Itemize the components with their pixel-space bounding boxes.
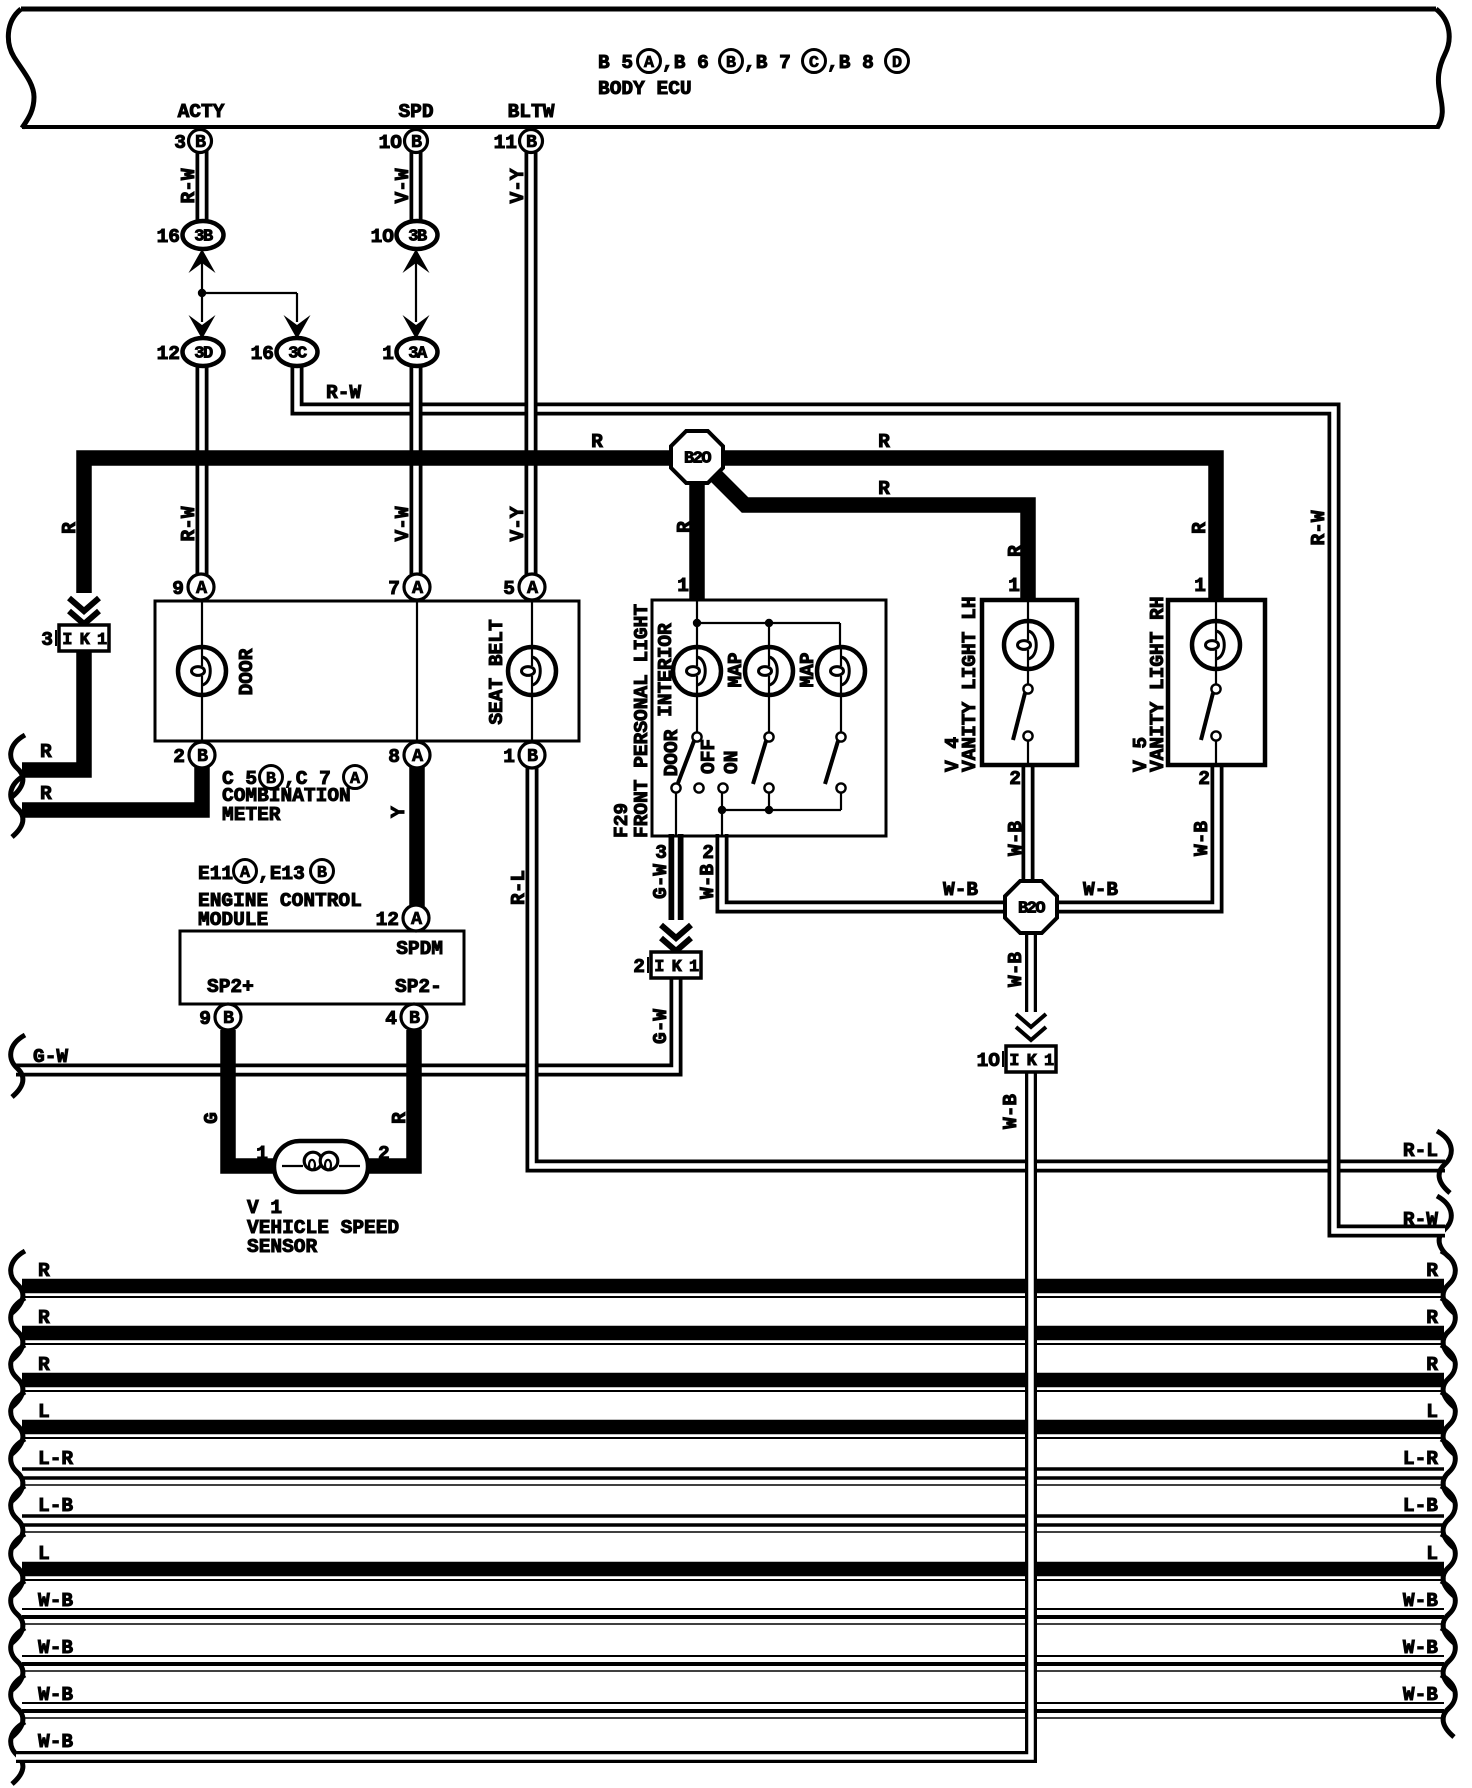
svg-text:F29: F29 <box>611 803 633 838</box>
arrow into 3A <box>403 315 430 339</box>
open arrow into 3 IK1 <box>69 598 99 611</box>
torn end R-L right <box>1437 1131 1451 1193</box>
svg-text:W-B: W-B <box>38 1637 73 1659</box>
wire R-L from meter pin 1B to right edge <box>532 766 1445 1166</box>
meter pin 5(A) <box>519 574 545 600</box>
wire R-W from connector 3C rightwards <box>297 366 560 409</box>
connector 12(3D) <box>183 338 224 366</box>
torn end left R <box>11 1345 25 1407</box>
svg-text:2: 2 <box>378 1143 390 1165</box>
svg-text:11: 11 <box>494 132 517 154</box>
svg-text:BODY ECU: BODY ECU <box>598 78 692 100</box>
svg-text:R-L: R-L <box>508 870 530 905</box>
arrow into 3C <box>284 315 311 339</box>
svg-text:9: 9 <box>199 1008 211 1030</box>
switch DOOR/OFF/ON <box>696 695 698 733</box>
torn end left L <box>11 1534 25 1596</box>
svg-text:Y: Y <box>388 806 410 818</box>
svg-text:3C: 3C <box>288 345 307 364</box>
svg-text:OFF: OFF <box>698 739 720 774</box>
svg-text:METER: METER <box>222 804 281 826</box>
svg-text:3: 3 <box>41 629 53 651</box>
svg-text:ON: ON <box>721 751 743 774</box>
svg-text:V-W: V-W <box>392 506 414 541</box>
svg-text:L: L <box>38 1543 50 1565</box>
svg-text:R: R <box>1005 545 1027 557</box>
torn end left L-B <box>11 1486 25 1548</box>
svg-text:W-B: W-B <box>1403 1637 1438 1659</box>
svg-text:9: 9 <box>172 578 184 600</box>
svg-text:1: 1 <box>503 746 515 768</box>
wire Y meter pin 8A to ECM pin 12A <box>409 766 425 906</box>
torn end right W-B <box>1441 1675 1455 1737</box>
svg-text:4: 4 <box>385 1008 397 1030</box>
svg-text:W-B: W-B <box>38 1684 73 1706</box>
torn end left R <box>11 1251 25 1313</box>
svg-text:G-W: G-W <box>650 1009 672 1044</box>
wire R diagonal B20 to vanity LH pin 1 <box>708 468 1028 600</box>
ECM pin 9(B) <box>215 1004 241 1030</box>
svg-text:I K 1: I K 1 <box>1009 1052 1054 1071</box>
svg-text:MAP: MAP <box>725 652 747 687</box>
wire V-W pin 10B to 10(3B) <box>410 150 423 222</box>
svg-text:R: R <box>1426 1354 1438 1376</box>
engine control module box <box>180 931 464 1004</box>
svg-text:B: B <box>317 864 327 883</box>
torn end left W-B <box>11 1581 25 1643</box>
svg-text:L: L <box>1426 1401 1438 1423</box>
wire R-W continuation to right edge <box>558 409 1445 1231</box>
svg-text:I K 1: I K 1 <box>654 958 699 977</box>
svg-text:3B: 3B <box>194 228 213 247</box>
svg-text:1O: 1O <box>379 132 403 154</box>
svg-text:W-B: W-B <box>697 864 719 899</box>
lamp INTERIOR <box>673 647 721 695</box>
svg-text:DOOR: DOOR <box>236 648 258 695</box>
torn end left W-B <box>11 1675 25 1737</box>
wire R ECM pin 4B to speed sensor pin 2 <box>364 1030 414 1166</box>
connector 10(3B) <box>397 221 438 249</box>
wire R thick from B20 to 3 IK1 <box>84 458 672 593</box>
svg-text:B: B <box>526 132 537 153</box>
svg-text:B: B <box>223 1008 234 1029</box>
junction dot <box>198 289 206 297</box>
arrow into 3B spd <box>403 249 430 273</box>
svg-text:16: 16 <box>251 343 274 365</box>
svg-text:8: 8 <box>388 746 400 768</box>
svg-text:2: 2 <box>173 746 185 768</box>
svg-text:L-B: L-B <box>38 1495 73 1517</box>
svg-text:SEAT BELT: SEAT BELT <box>486 619 508 725</box>
junction 3 IK1 <box>59 625 109 651</box>
svg-text:3D: 3D <box>194 345 213 364</box>
splice B20 lower <box>1005 881 1057 933</box>
svg-text:12: 12 <box>157 343 180 365</box>
pin 10(B) body ECU SPD <box>405 130 428 153</box>
svg-text:R: R <box>40 741 52 763</box>
torn end right R <box>1441 1298 1455 1360</box>
torn harness wire W-B <box>22 1702 1444 1704</box>
torn harness wire R <box>22 1373 1444 1388</box>
svg-text:3: 3 <box>655 842 667 864</box>
svg-text:R: R <box>878 431 890 453</box>
switch MAP 1 <box>768 695 770 733</box>
svg-text:B: B <box>411 132 422 153</box>
svg-text:W-B: W-B <box>1191 821 1213 856</box>
lamp MAP 2 <box>817 647 865 695</box>
meter pin 9(A) <box>188 574 214 600</box>
svg-text:B: B <box>409 1008 420 1029</box>
svg-text:12: 12 <box>376 909 399 931</box>
svg-text:SP2+: SP2+ <box>207 976 254 998</box>
arrow into 3B <box>189 249 216 273</box>
wire R B20 down to F29 pin 1 <box>689 480 705 600</box>
ECM pin 12(A) <box>403 905 429 931</box>
BODY ECU harness band <box>21 7 1436 12</box>
svg-text:1O: 1O <box>977 1050 1001 1072</box>
svg-text:B: B <box>527 746 538 767</box>
meter pin 8(A) <box>404 742 430 768</box>
pin 11(B) body ECU BLTW <box>520 130 543 153</box>
svg-text:L-R: L-R <box>38 1448 73 1470</box>
wire R meter pin 2B to left edge <box>22 766 202 810</box>
svg-text:V-W: V-W <box>392 168 414 203</box>
svg-text:MAP: MAP <box>797 652 819 687</box>
torn end right L-R <box>1441 1439 1455 1501</box>
svg-text:R-W: R-W <box>178 506 200 541</box>
svg-text:V 1: V 1 <box>247 1197 282 1219</box>
svg-text:R: R <box>38 1354 50 1376</box>
svg-text:SENSOR: SENSOR <box>247 1236 318 1258</box>
wire W-B from B20 down <box>1025 930 1037 1012</box>
svg-text:3A: 3A <box>408 345 428 364</box>
torn harness wire R <box>22 1326 1444 1341</box>
svg-text:W-B: W-B <box>1005 952 1027 987</box>
svg-text:W-B: W-B <box>1000 1094 1022 1129</box>
wire W-B vanity LH pin 2 to B20 <box>1022 763 1035 884</box>
junction 10 IK1 <box>1006 1046 1056 1072</box>
torn end left W-B <box>11 1628 25 1690</box>
wire W-B vanity RH pin 2 to B20 <box>1054 763 1217 907</box>
svg-text:A: A <box>240 864 251 883</box>
svg-text:W-B: W-B <box>38 1731 73 1753</box>
svg-text:W-B: W-B <box>1403 1684 1438 1706</box>
svg-text:A: A <box>350 770 361 789</box>
svg-text:SP2-: SP2- <box>395 976 442 998</box>
meter pin 2(B) <box>189 742 215 768</box>
svg-text:R: R <box>591 431 603 453</box>
connector 16(3C) <box>277 338 318 366</box>
F29 front personal light box <box>652 600 886 836</box>
combination meter box <box>155 601 579 741</box>
svg-text:E11: E11 <box>198 863 233 885</box>
svg-text:R-W: R-W <box>178 168 200 203</box>
svg-text:R: R <box>389 1112 411 1124</box>
V4 vanity light LH box <box>982 600 1077 765</box>
svg-text:1: 1 <box>256 1143 268 1165</box>
svg-text:V-Y: V-Y <box>507 168 529 203</box>
connector 1(3A) <box>397 338 438 366</box>
svg-text:W-B: W-B <box>943 879 978 901</box>
lamp SEAT BELT indicator <box>508 647 556 695</box>
lamp vanity RH <box>1192 621 1240 669</box>
svg-text:FRONT PERSONAL LIGHT: FRONT PERSONAL LIGHT <box>631 604 653 838</box>
svg-text:G-W: G-W <box>33 1046 68 1068</box>
svg-text:MODULE: MODULE <box>198 909 268 931</box>
lamp MAP 1 <box>745 647 793 695</box>
svg-text:W-B: W-B <box>1005 821 1027 856</box>
svg-text:2: 2 <box>633 956 645 978</box>
svg-text:G-W: G-W <box>650 864 672 899</box>
torn harness wire W-B <box>22 1608 1444 1610</box>
svg-text:B 5: B 5 <box>598 52 633 74</box>
splice B20 upper <box>671 431 723 483</box>
svg-text:,B 8: ,B 8 <box>827 52 874 74</box>
junction 2 IK1 <box>651 952 701 978</box>
wire R-W connector 3D to meter pin 9A <box>196 364 209 578</box>
svg-text:ACTY: ACTY <box>178 101 225 123</box>
torn end left W-B <box>11 1722 25 1784</box>
svg-text:B2O: B2O <box>684 450 711 469</box>
svg-text:R: R <box>38 1307 50 1329</box>
svg-text:W-B: W-B <box>1403 1590 1438 1612</box>
lamp DOOR indicator <box>178 647 226 695</box>
open arrow into 10 IK1 <box>1016 1014 1046 1027</box>
arrow into 3D <box>189 315 216 339</box>
svg-text:,B 6: ,B 6 <box>662 52 709 74</box>
svg-text:G: G <box>201 1112 223 1124</box>
torn harness wire L-R <box>22 1467 1444 1471</box>
svg-text:1O: 1O <box>371 226 395 248</box>
svg-text:,E13: ,E13 <box>258 863 305 885</box>
svg-text:1: 1 <box>677 575 689 597</box>
wire V-Y pin 11B to meter pin 5A <box>525 150 538 578</box>
meter pin 1(B) <box>519 742 545 768</box>
svg-text:L: L <box>1426 1543 1438 1565</box>
svg-text:R: R <box>1189 522 1211 534</box>
torn end right R <box>1441 1251 1455 1313</box>
svg-text:R: R <box>40 783 52 805</box>
svg-text:I K 1: I K 1 <box>62 631 107 650</box>
torn end R left upper <box>11 735 25 797</box>
svg-text:3B: 3B <box>408 228 427 247</box>
connector 16(3B) <box>183 221 224 249</box>
torn end G-W left <box>11 1035 25 1097</box>
torn end right W-B <box>1441 1581 1455 1643</box>
switch MAP 2 <box>840 695 842 733</box>
torn end right R <box>1441 1345 1455 1407</box>
wire W-B from 10 IK1 to bottom left edge <box>16 1072 1031 1757</box>
svg-text:A: A <box>644 54 655 73</box>
torn harness wire W-B <box>22 1655 1444 1657</box>
svg-text:L-R: L-R <box>1403 1448 1438 1470</box>
svg-text:R-W: R-W <box>326 382 361 404</box>
torn end R left lower <box>11 775 25 837</box>
svg-text:R: R <box>38 1260 50 1282</box>
wire R-W pin 3B to 16(3B) <box>196 150 209 222</box>
svg-text:VANITY LIGHT RH: VANITY LIGHT RH <box>1147 596 1169 772</box>
torn harness wire L <box>22 1562 1444 1577</box>
svg-text:1: 1 <box>1008 575 1020 597</box>
meter pin 7(A) <box>404 574 430 600</box>
svg-text:D: D <box>892 54 902 73</box>
svg-text:B: B <box>726 54 736 73</box>
svg-text:R: R <box>1426 1260 1438 1282</box>
svg-text:B: B <box>195 132 206 153</box>
torn end right W-B <box>1441 1628 1455 1690</box>
svg-text:R: R <box>674 521 696 533</box>
torn end right L <box>1441 1534 1455 1596</box>
svg-text:3: 3 <box>174 132 186 154</box>
svg-text:DOOR: DOOR <box>661 729 683 776</box>
svg-text:16: 16 <box>157 226 180 248</box>
svg-text:1: 1 <box>382 343 394 365</box>
wire G-W thick from F29 pin 3 <box>669 834 684 920</box>
svg-text:7: 7 <box>388 578 400 600</box>
svg-text:R: R <box>1426 1307 1438 1329</box>
svg-text:B: B <box>197 746 208 767</box>
V5 vanity light RH box <box>1168 600 1265 765</box>
lamp vanity LH <box>1004 621 1052 669</box>
open arrow into 2 IK1 <box>661 925 691 938</box>
wire W-B F29 pin 2 to B20 <box>722 834 1008 907</box>
torn end left R <box>11 1298 25 1360</box>
svg-text:VANITY LIGHT LH: VANITY LIGHT LH <box>959 596 981 772</box>
svg-text:R-L: R-L <box>1403 1140 1438 1162</box>
torn harness wire L <box>22 1420 1444 1435</box>
wire R from 3 IK1 to left edge <box>22 650 84 770</box>
pin 3(B) body ECU ACTY <box>189 130 212 153</box>
torn end left L-R <box>11 1439 25 1501</box>
vehicle speed sensor V1 <box>274 1141 368 1192</box>
ECM pin 4(B) <box>401 1004 427 1030</box>
svg-text:INTERIOR: INTERIOR <box>655 623 677 717</box>
svg-text:2: 2 <box>1198 768 1210 790</box>
torn end right L <box>1441 1392 1455 1454</box>
svg-text:B2O: B2O <box>1018 900 1045 919</box>
svg-text:SPDM: SPDM <box>396 938 443 960</box>
svg-text:L-B: L-B <box>1403 1495 1438 1517</box>
wire R thick B20 to vanity RH pin 1 <box>723 458 1216 600</box>
svg-text:R-W: R-W <box>1308 510 1330 545</box>
svg-text:5: 5 <box>503 578 515 600</box>
svg-text:R: R <box>59 522 81 534</box>
svg-text:W-B: W-B <box>1083 879 1118 901</box>
svg-text:V-Y: V-Y <box>507 506 529 541</box>
svg-text:R: R <box>878 478 890 500</box>
svg-text:C: C <box>809 54 819 73</box>
wire G-W from IK1 to left edge <box>16 978 676 1070</box>
svg-text:W-B: W-B <box>38 1590 73 1612</box>
svg-text:2: 2 <box>702 842 714 864</box>
svg-text:,B 7: ,B 7 <box>744 52 791 74</box>
svg-text:BLTW: BLTW <box>508 101 555 123</box>
torn end left L <box>11 1392 25 1454</box>
torn harness wire L-B <box>22 1514 1444 1518</box>
svg-text:SPD: SPD <box>398 101 433 123</box>
svg-text:L: L <box>38 1401 50 1423</box>
torn end R-W right <box>1437 1196 1451 1258</box>
wire G ECM pin 9B to speed sensor pin 1 <box>228 1030 278 1166</box>
torn end right L-B <box>1441 1486 1455 1548</box>
svg-text:2: 2 <box>1009 768 1021 790</box>
torn harness wire R <box>22 1279 1444 1294</box>
svg-text:1: 1 <box>1194 575 1206 597</box>
wire V-W connector 3A to meter pin 7A <box>410 364 423 578</box>
